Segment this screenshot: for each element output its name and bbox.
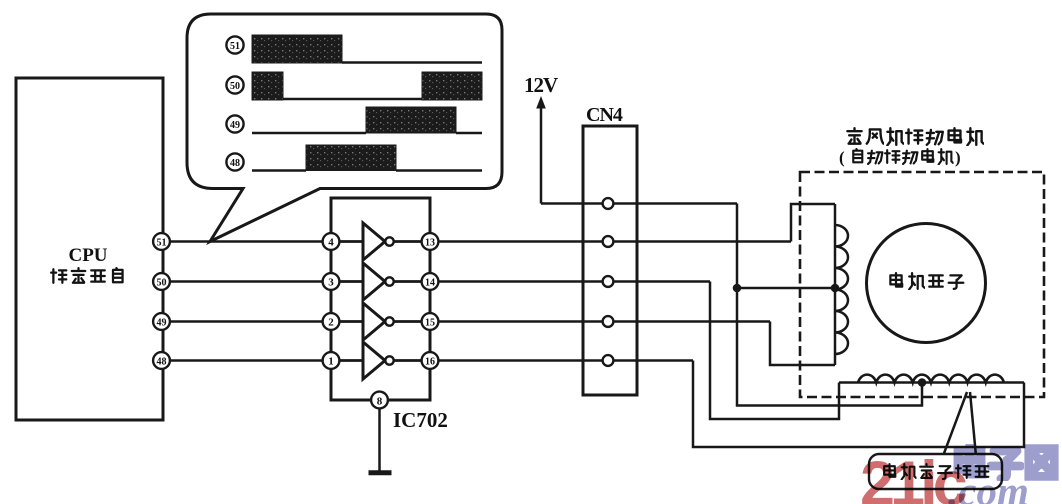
junction L1 center tap [831, 284, 840, 293]
stator label leader line a [943, 392, 967, 456]
IC702 pin 16 [422, 352, 439, 369]
waveform trace row 2 [252, 72, 482, 100]
CPU pin 48 [153, 352, 170, 369]
svg-text:50: 50 [230, 81, 240, 92]
inverter B wiring [331, 280, 430, 283]
wire row2 to winding L2 left end [710, 282, 839, 420]
wire 12V branch to winding L1 center tap [737, 287, 835, 290]
IC702 pin 2 [323, 313, 340, 330]
svg-text:49: 49 [230, 120, 240, 131]
wire row3 to winding L1 bottom [770, 322, 835, 366]
watermark .com [948, 468, 1029, 504]
wire row4 to winding L2 right end [693, 361, 1024, 448]
wire row4 CPU pin48 to IC702 pin1 to CN4 [161, 359, 693, 362]
ground [369, 470, 392, 475]
svg-text:8: 8 [377, 396, 383, 408]
svg-text:2: 2 [328, 317, 334, 329]
CPU pin 51 [153, 233, 170, 250]
IC702 pin 13 [422, 233, 439, 250]
CPU label [51, 245, 122, 283]
stator label leader line b [970, 392, 976, 456]
IC702 pin 14 [422, 273, 439, 290]
wire row1 riser to winding L1 top [791, 204, 835, 242]
inverter D [363, 342, 394, 379]
inverter C wiring [331, 320, 430, 323]
svg-text:): ) [955, 148, 961, 167]
inverter D wiring [331, 359, 430, 362]
svg-text:IC702: IC702 [393, 408, 448, 432]
svg-text:.com: .com [948, 468, 1029, 504]
wire row3 CPU pin49 to IC702 pin2 to CN4 [161, 320, 770, 323]
CN4 pin 3 [603, 276, 614, 287]
wire 12V net vertical down to stator taps [737, 204, 922, 406]
wire row2 CPU pin50 to IC702 pin3 to CN4 [161, 280, 710, 283]
12V supply arrow [536, 96, 546, 204]
waveform pin circle 51 [226, 36, 243, 53]
CPU pin 50 [153, 273, 170, 290]
waveform trace row 4 [252, 145, 482, 171]
IC702 pin 15 [422, 313, 439, 330]
inverter B [363, 263, 394, 300]
wire 12V arrow to CN4 pin1 [541, 202, 737, 205]
CN4 pin 4 [603, 316, 614, 327]
svg-text:51: 51 [157, 237, 167, 248]
watermark 21ic [860, 449, 967, 504]
inverter C [363, 303, 394, 340]
CN4 pin 2 [603, 236, 614, 247]
junction L2 center tap [918, 378, 927, 387]
svg-text:48: 48 [157, 356, 167, 367]
IC702 pin 4 [323, 233, 340, 250]
rotor label [890, 273, 963, 289]
svg-text:CN4: CN4 [586, 104, 623, 126]
svg-text:CPU: CPU [68, 245, 107, 266]
svg-text:16: 16 [425, 356, 435, 367]
motor name label line2 [839, 148, 961, 167]
callout bubble for waveforms [187, 14, 502, 242]
svg-text:12V: 12V [524, 73, 558, 97]
waveform pin circle 49 [226, 115, 243, 132]
stator winding label text [884, 464, 988, 479]
svg-text:50: 50 [157, 277, 167, 288]
IC702 box [331, 198, 430, 400]
svg-text:(: ( [839, 148, 845, 167]
waveform trace row 3 [252, 107, 482, 133]
wire pin8 to ground [378, 409, 381, 472]
inverter A (buffer with bubble) [363, 223, 394, 260]
waveform pin circle 50 [226, 76, 243, 93]
IC702 pin 3 [323, 273, 340, 290]
svg-text:14: 14 [425, 277, 435, 288]
junction 12V tee [733, 284, 742, 293]
svg-text:3: 3 [328, 277, 334, 289]
winding L2 (bottom stator coil, horizontal) [839, 375, 1024, 383]
waveform pin circle 48 [226, 153, 243, 170]
rotor circle [867, 224, 986, 343]
stator winding label box [869, 454, 1002, 489]
winding L1 (left stator coil, vertical) [835, 204, 848, 365]
IC702 pin 1 [323, 352, 340, 369]
CN4 pin 1 [603, 198, 614, 209]
svg-text:15: 15 [425, 317, 435, 328]
motor dashed enclosure [800, 172, 1044, 397]
IC702 pin 8 [371, 392, 388, 409]
CPU box U-CPU [16, 78, 163, 420]
wire row1 CPU pin51 to IC702 pin4 to CN4 [161, 240, 791, 243]
svg-text:49: 49 [157, 317, 167, 328]
svg-text:4: 4 [328, 237, 334, 249]
CN4 pin 5 [603, 355, 614, 366]
svg-text:1: 1 [328, 356, 334, 368]
waveform trace row 1 [252, 35, 482, 63]
svg-text:48: 48 [230, 158, 240, 169]
svg-text:51: 51 [230, 41, 240, 52]
watermark dianziwang [958, 446, 1054, 478]
motor name label line1 [847, 128, 983, 145]
CN4 connector box [583, 126, 637, 395]
CPU pin 49 [153, 313, 170, 330]
svg-text:13: 13 [425, 237, 435, 248]
inverter A wiring [331, 240, 430, 243]
